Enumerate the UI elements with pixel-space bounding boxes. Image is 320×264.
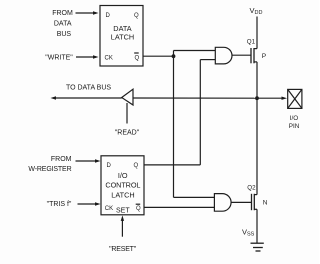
svg-text:Q1: Q1 xyxy=(247,39,256,46)
svg-text:"TRIS f": "TRIS f" xyxy=(47,201,72,208)
svg-text:SET: SET xyxy=(116,208,130,215)
svg-text:Q: Q xyxy=(135,56,140,62)
transistor Q1 (P-channel) xyxy=(247,39,266,64)
tri-state read buffer xyxy=(122,89,133,105)
wire: buffer input from node B xyxy=(133,97,257,99)
svg-text:DATA: DATA xyxy=(54,21,72,28)
wire: read bus with arrow to data bus xyxy=(51,96,122,99)
svg-text:CK: CK xyxy=(105,56,113,62)
label FROM DATA BUS xyxy=(52,10,73,38)
and gate (top) xyxy=(215,47,250,64)
svg-text:I/O: I/O xyxy=(118,171,128,180)
svg-text:TO DATA BUS: TO DATA BUS xyxy=(66,85,111,92)
wire: WRITE to CK input xyxy=(76,55,99,58)
wire: node A up/right to top AND gate input 1 xyxy=(174,50,216,52)
svg-text:Q: Q xyxy=(136,206,141,212)
wire: control latch Qbar to bottom AND gate input 2 xyxy=(144,206,214,208)
wire: node B to I/O pin xyxy=(257,97,287,100)
data latch U1 xyxy=(100,6,143,67)
wire: Q2 source to ground xyxy=(256,209,258,243)
svg-text:Q2: Q2 xyxy=(247,185,256,192)
transistor Q2 (N-channel) xyxy=(247,185,267,211)
svg-text:N: N xyxy=(263,199,268,206)
label FROM W-REGISTER xyxy=(28,156,71,173)
svg-text:"WRITE": "WRITE" xyxy=(45,55,73,62)
svg-text:D: D xyxy=(107,163,112,169)
wire: vertical from node A down to bottom AND gate xyxy=(173,51,175,198)
node B (pin junction dot) xyxy=(255,96,259,100)
wire: W-register to D input xyxy=(76,159,101,162)
svg-text:FROM: FROM xyxy=(51,156,72,163)
wire: TRIS to CK input xyxy=(78,202,101,205)
svg-text:D: D xyxy=(106,13,111,19)
wire: RESET to SET input xyxy=(121,215,124,236)
svg-text:Q: Q xyxy=(134,13,139,19)
svg-text:LATCH: LATCH xyxy=(111,33,134,42)
svg-text:CONTROL: CONTROL xyxy=(105,181,140,190)
wire: control latch Q up to top AND gate input 2 xyxy=(144,60,215,165)
wire: data bus to D input xyxy=(76,11,99,14)
svg-text:LATCH: LATCH xyxy=(111,191,134,200)
node A (junction dot) xyxy=(172,54,176,58)
VDD supply xyxy=(250,6,263,49)
svg-text:I/O: I/O xyxy=(290,115,298,122)
wire: Q1 source down to Q2 drain (output rail) xyxy=(256,62,258,195)
svg-text:BUS: BUS xyxy=(57,31,72,38)
I/O control latch U2 xyxy=(101,156,144,215)
and gate (bottom) xyxy=(214,194,251,212)
I/O pin xyxy=(288,89,302,129)
svg-text:"RESET": "RESET" xyxy=(109,246,137,253)
wire: READ enable xyxy=(126,103,128,124)
svg-text:PIN: PIN xyxy=(289,123,300,130)
ground xyxy=(251,243,264,251)
svg-text:CK: CK xyxy=(105,206,113,212)
svg-text:FROM: FROM xyxy=(52,10,73,17)
wire: to bottom AND gate input 1 xyxy=(174,196,215,198)
svg-text:"READ": "READ" xyxy=(115,130,140,137)
svg-text:W-REGISTER: W-REGISTER xyxy=(28,166,71,173)
svg-text:P: P xyxy=(262,53,266,60)
svg-text:Q: Q xyxy=(134,163,139,169)
wire: data latch Qbar output to node A xyxy=(143,55,174,57)
